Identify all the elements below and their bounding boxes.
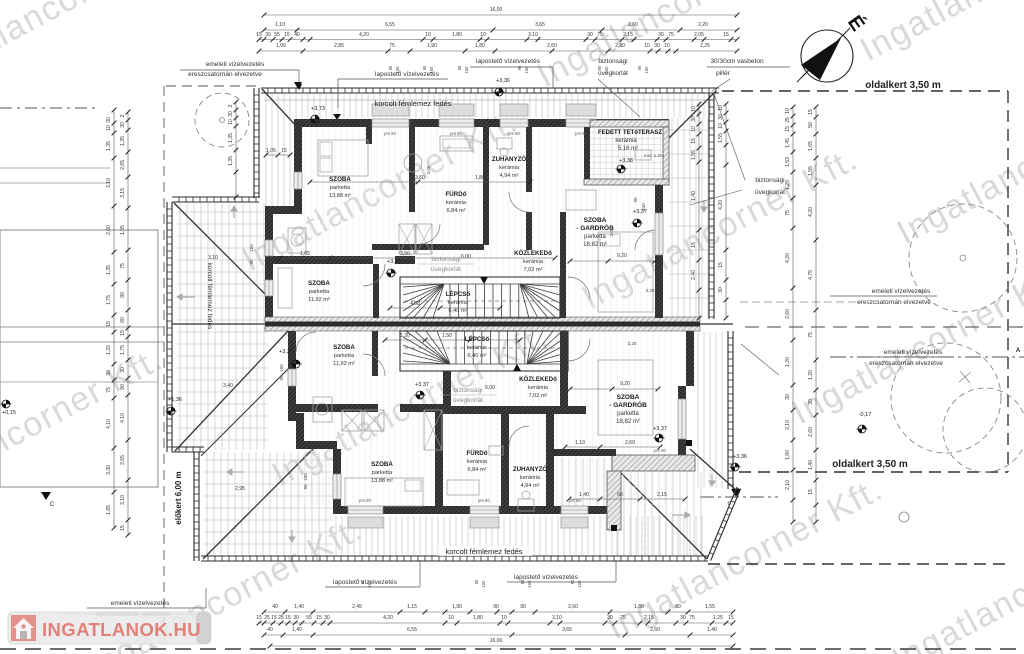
interior dim row lower: [565, 446, 660, 448]
svg-text:30: 30: [120, 122, 126, 128]
svg-text:1,10: 1,10: [275, 22, 285, 28]
svg-text:3,30: 3,30: [106, 465, 112, 475]
dim chain left 1: [113, 110, 115, 528]
sofa lower-left room upper unit: [278, 268, 292, 308]
svg-text:parketta: parketta: [309, 289, 330, 295]
svg-text:1,80: 1,80: [475, 175, 485, 181]
svg-text:parketta: parketta: [617, 411, 639, 417]
svg-text:3,20: 3,20: [646, 288, 655, 293]
window top 4: [566, 119, 596, 127]
svg-text:75: 75: [597, 32, 603, 38]
svg-text:4,20: 4,20: [359, 32, 369, 38]
wall south exterior (lower unit): [333, 506, 612, 514]
roof hatch bottom-left: [207, 452, 326, 556]
svg-text:10: 10: [785, 108, 791, 114]
wall szoba1192 east (lower): [372, 331, 378, 376]
svg-text:2,15: 2,15: [644, 615, 654, 621]
svg-text:ereszcsatornán elvezetve: ereszcsatornán elvezetve: [869, 360, 943, 367]
dim chain bottom 16,00: [270, 645, 733, 647]
interior dim row upper: [310, 181, 530, 183]
hip diagonal E corner: [690, 449, 735, 489]
washing machine lower: [313, 397, 332, 422]
svg-text:90: 90: [597, 65, 602, 70]
terrace floor tiles: [590, 127, 663, 179]
svg-text:150: 150: [279, 364, 284, 372]
svg-text:10: 10: [501, 615, 507, 621]
svg-text:C: C: [50, 502, 55, 508]
svg-text:90: 90: [517, 65, 522, 70]
svg-text:40: 40: [267, 627, 273, 633]
eave west lower: [198, 452, 200, 561]
hip diagonal NW: [262, 89, 298, 128]
svg-text:3,10: 3,10: [120, 495, 126, 505]
neighbour building left: [0, 230, 158, 487]
window west lower unit: [288, 369, 296, 386]
svg-text:1,80: 1,80: [634, 604, 644, 610]
svg-text:emeleti vízelvezetés: emeleti vízelvezetés: [872, 288, 931, 295]
bed lower unit gardrob: [598, 360, 653, 435]
svg-text:10: 10: [480, 32, 486, 38]
svg-text:2,60: 2,60: [568, 604, 578, 610]
svg-text:15: 15: [691, 138, 697, 144]
svg-text:2: 2: [120, 114, 126, 117]
svg-text:1,40: 1,40: [691, 191, 697, 201]
svg-text:3,40: 3,40: [223, 383, 233, 389]
svg-text:1,55: 1,55: [718, 133, 724, 143]
svg-text:90: 90: [637, 65, 642, 70]
bathtub upper: [440, 136, 473, 151]
svg-text:90: 90: [120, 292, 126, 298]
svg-text:1,55: 1,55: [691, 150, 697, 160]
svg-text:240: 240: [641, 203, 646, 211]
svg-text:15: 15: [271, 615, 277, 621]
svg-text:13,88 m²: 13,88 m²: [371, 478, 393, 484]
svg-text:1,00: 1,00: [276, 43, 286, 49]
svg-text:30: 30: [587, 32, 593, 38]
svg-text:150: 150: [481, 580, 486, 588]
svg-text:30: 30: [265, 32, 271, 38]
svg-text:2,15: 2,15: [657, 492, 667, 498]
svg-text:előkert 6,00 m: előkert 6,00 m: [174, 471, 183, 524]
svg-text:15: 15: [728, 615, 734, 621]
svg-text:1,90: 1,90: [427, 43, 437, 49]
svg-text:80: 80: [675, 604, 681, 610]
eave left extension top: [172, 196, 259, 198]
svg-text:11,92 m²: 11,92 m²: [333, 361, 355, 367]
svg-text:oldalkert 3,50 m: oldalkert 3,50 m: [865, 80, 941, 91]
dim chain top row4: [259, 50, 737, 52]
svg-text:6,00: 6,00: [461, 254, 471, 260]
svg-text:kerámia: kerámia: [523, 259, 544, 265]
svg-text:16,00: 16,00: [490, 638, 503, 644]
svg-text:+3,36: +3,36: [496, 78, 510, 84]
svg-text:+3,37: +3,37: [653, 426, 667, 432]
svg-text:3,65: 3,65: [535, 22, 545, 28]
svg-text:üvegkorlát: üvegkorlát: [453, 397, 483, 404]
svg-text:1,20: 1,20: [106, 345, 112, 355]
dim chain right outer 2: [815, 107, 817, 522]
svg-text:2,60: 2,60: [625, 440, 635, 446]
hip diagonal SE: [620, 472, 707, 559]
svg-text:1,40: 1,40: [579, 492, 589, 498]
svg-text:90: 90: [520, 604, 526, 610]
svg-text:2,15: 2,15: [623, 32, 633, 38]
svg-text:2,85: 2,85: [334, 43, 344, 49]
svg-text:+1,36: +1,36: [168, 397, 182, 403]
svg-text:1,20: 1,20: [808, 370, 814, 380]
wall stub bed nook: [366, 127, 372, 144]
svg-text:2,25: 2,25: [700, 43, 710, 49]
svg-text:2,65: 2,65: [120, 160, 126, 170]
svg-text:4,75: 4,75: [808, 270, 814, 280]
svg-text:emeleti vízelvezetés: emeleti vízelvezetés: [206, 61, 265, 68]
svg-text:SZOBA: SZOBA: [617, 394, 640, 401]
svg-text:25: 25: [264, 615, 270, 621]
wall west upper (lower unit): [288, 331, 296, 413]
svg-text:30/30cm vasbeton: 30/30cm vasbeton: [710, 58, 764, 65]
svg-text:2,05: 2,05: [694, 32, 704, 38]
svg-text:korcolt fémlemez fedés: korcolt fémlemez fedés: [206, 263, 213, 331]
svg-text:1,20: 1,20: [400, 333, 410, 339]
gardrob dims: [570, 260, 655, 262]
svg-text:15: 15: [316, 615, 322, 621]
svg-text:A: A: [1016, 348, 1021, 354]
svg-text:1,35: 1,35: [106, 141, 112, 151]
svg-text:18,82 m²: 18,82 m²: [616, 419, 640, 425]
svg-text:55: 55: [274, 32, 280, 38]
svg-text:1,05: 1,05: [300, 251, 310, 257]
partition szoba (lower): [296, 404, 378, 412]
dim chain top 16,00: [264, 14, 737, 16]
svg-text:75: 75: [389, 43, 395, 49]
svg-text:üvegkorlát: üvegkorlát: [755, 189, 785, 196]
svg-text:1,40: 1,40: [292, 627, 302, 633]
section marker C left: [41, 492, 51, 500]
svg-text:150: 150: [303, 473, 308, 481]
svg-text:1,35: 1,35: [228, 133, 234, 143]
svg-text:SZOBA: SZOBA: [308, 280, 330, 287]
window south 2: [470, 506, 499, 514]
wall band (lower unit): [296, 441, 337, 449]
svg-text:6,84 m²: 6,84 m²: [447, 208, 466, 214]
window top 3: [500, 119, 528, 127]
window: [333, 474, 341, 499]
svg-text:90: 90: [360, 579, 365, 584]
site boundary lines: [722, 90, 1008, 92]
svg-text:30: 30: [106, 370, 112, 376]
wardrobe X lower: [342, 410, 362, 431]
dim chain right inner 1: [698, 104, 700, 318]
svg-text:5,16 m²: 5,16 m²: [618, 146, 638, 152]
svg-text:1,05: 1,05: [266, 148, 276, 154]
svg-text:6,55: 6,55: [407, 627, 417, 633]
interior dim row upper3: [390, 307, 500, 309]
svg-text:90: 90: [120, 384, 126, 390]
logo ingatlanok.hu: [8, 612, 211, 644]
svg-text:150: 150: [527, 580, 532, 588]
eave left extension west: [171, 202, 173, 452]
svg-text:75: 75: [808, 332, 814, 338]
svg-text:30: 30: [785, 394, 791, 400]
eave SE chamfer: [707, 487, 737, 559]
eave bottom: [201, 555, 708, 557]
roof hatch right strip lower: [698, 332, 728, 488]
wall east of unit (upper): [655, 185, 663, 260]
svg-text:2,40: 2,40: [691, 270, 697, 280]
sink terrace: [635, 150, 651, 160]
svg-text:SZOBA: SZOBA: [333, 344, 355, 351]
svg-text:3,00: 3,00: [426, 165, 431, 174]
svg-text:ZUHANYZÓ: ZUHANYZÓ: [492, 155, 527, 163]
roof windows above: [372, 104, 409, 116]
roof hatch top strip: [266, 94, 710, 118]
table round upper: [404, 154, 422, 172]
svg-text:15: 15: [808, 109, 814, 115]
svg-text:75: 75: [668, 32, 674, 38]
svg-text:90: 90: [303, 484, 308, 490]
svg-text:4,20: 4,20: [383, 615, 393, 621]
svg-text:1,85: 1,85: [106, 505, 112, 515]
svg-text:INGATLANOK.HU: INGATLANOK.HU: [42, 619, 201, 640]
slope arrows: [177, 294, 195, 300]
svg-text:parketta: parketta: [330, 185, 351, 191]
interior wall zuhanyzo east (lower): [546, 406, 554, 514]
svg-text:2,60: 2,60: [547, 43, 557, 49]
wall west upper room: [294, 127, 302, 214]
svg-text:1,35: 1,35: [106, 265, 112, 275]
bathtub lower: [447, 480, 479, 495]
eave right lower: [732, 331, 734, 489]
roof hatch west strip upper: [266, 118, 290, 206]
svg-text:3,10: 3,10: [552, 615, 562, 621]
interior wall furdo west (lower): [435, 406, 443, 514]
washing machine upper: [288, 228, 306, 253]
svg-text:pm 90: pm 90: [575, 131, 587, 136]
svg-text:3,20: 3,20: [628, 341, 637, 346]
svg-text:kerámia: kerámia: [467, 459, 488, 465]
svg-text:15: 15: [723, 32, 729, 38]
svg-text:6,55: 6,55: [385, 22, 395, 28]
interior wall gardrob west: [560, 212, 566, 318]
interior wall szoba/furdo: [409, 127, 415, 212]
svg-text:+3,36: +3,36: [279, 349, 293, 355]
svg-text:+3,38: +3,38: [619, 158, 633, 164]
svg-text:75: 75: [120, 263, 126, 269]
dim chain top row2: [264, 29, 737, 31]
roof windows below: [348, 517, 383, 528]
wall bath block north (lower): [435, 406, 586, 414]
section marker C right: [731, 489, 741, 497]
svg-text:ereszcsatornán elvezetve: ereszcsatornán elvezetve: [188, 71, 262, 78]
wall szoba1192 east: [373, 264, 379, 318]
svg-text:7,02 m²: 7,02 m²: [524, 267, 543, 273]
stair lower unit: [400, 331, 568, 371]
svg-text:SZOBA: SZOBA: [584, 217, 607, 224]
svg-text:30: 30: [106, 117, 112, 123]
svg-text:15: 15: [256, 615, 262, 621]
window east upper: [655, 213, 663, 255]
svg-text:10: 10: [691, 106, 697, 112]
svg-text:+3,37: +3,37: [415, 382, 429, 388]
dim chain top row3: [259, 39, 737, 41]
eave top: [261, 87, 719, 89]
svg-text:4,94 m²: 4,94 m²: [500, 173, 519, 179]
dim chain bottom row1: [264, 611, 733, 613]
svg-text:16,00: 16,00: [490, 7, 503, 13]
svg-text:parketta: parketta: [334, 353, 355, 359]
svg-text:kerámia: kerámia: [615, 138, 637, 144]
svg-text:1,65: 1,65: [808, 141, 814, 151]
svg-text:90: 90: [493, 604, 499, 610]
marker top eave: [294, 82, 302, 89]
svg-text:30: 30: [658, 32, 664, 38]
svg-text:10: 10: [425, 32, 431, 38]
svg-text:kerámia: kerámia: [528, 385, 549, 391]
svg-text:90: 90: [279, 375, 284, 381]
svg-text:25: 25: [278, 615, 284, 621]
svg-text:60: 60: [617, 492, 623, 498]
svg-text:2,65: 2,65: [120, 455, 126, 465]
svg-text:18,82 m²: 18,82 m²: [583, 242, 607, 248]
hip diagonal SW: [203, 449, 313, 559]
svg-text:7,02 m²: 7,02 m²: [529, 393, 548, 399]
svg-text:10: 10: [448, 615, 454, 621]
svg-text:1,20: 1,20: [785, 357, 791, 367]
svg-text:3,10: 3,10: [208, 255, 218, 261]
interior dim upper-left window: [266, 154, 290, 156]
svg-text:KÖZLEKEDő: KÖZLEKEDő: [514, 250, 552, 257]
svg-text:3,10: 3,10: [528, 32, 538, 38]
svg-text:2,95: 2,95: [235, 486, 245, 492]
svg-text:min. 1,5%: min. 1,5%: [644, 153, 664, 158]
interior dim row lower2: [569, 498, 685, 500]
svg-text:1,80: 1,80: [475, 43, 485, 49]
svg-text:75: 75: [620, 615, 626, 621]
wall top exterior (upper unit): [294, 119, 669, 127]
svg-text:11,92 m²: 11,92 m²: [308, 297, 330, 303]
svg-text:1,55: 1,55: [808, 166, 814, 176]
svg-text:FEDETT TETőTERASZ: FEDETT TETőTERASZ: [598, 130, 662, 136]
interior wall furdo/zuhanyzo: [483, 127, 489, 245]
window west 3: [265, 280, 273, 296]
svg-text:30: 30: [324, 615, 330, 621]
svg-text:10: 10: [106, 125, 112, 131]
dim chain right inner 2: [725, 104, 727, 318]
svg-text:15: 15: [120, 525, 126, 531]
floor texture lower unit: [299, 332, 671, 505]
svg-text:+3,36: +3,36: [733, 454, 747, 460]
svg-text:15: 15: [256, 32, 262, 38]
svg-text:1,80: 1,80: [473, 615, 483, 621]
svg-text:2,60: 2,60: [650, 627, 660, 633]
svg-text:15: 15: [718, 262, 724, 268]
svg-text:10: 10: [228, 119, 234, 125]
svg-text:korcolt fémlemez fedés: korcolt fémlemez fedés: [374, 99, 451, 108]
svg-text:30: 30: [120, 367, 126, 373]
svg-text:üvegkorlát: üvegkorlát: [431, 266, 461, 273]
svg-text:90: 90: [520, 579, 525, 584]
dim chain bottom row3: [264, 634, 733, 636]
svg-text:pm 90: pm 90: [384, 131, 396, 136]
svg-text:parketta: parketta: [584, 234, 606, 240]
svg-text:3,60: 3,60: [415, 175, 425, 181]
svg-text:1,75: 1,75: [120, 345, 126, 355]
svg-text:kerámia: kerámia: [520, 475, 541, 481]
svg-text:4,20: 4,20: [718, 200, 724, 210]
svg-text:15: 15: [808, 489, 814, 495]
svg-text:1,35: 1,35: [120, 136, 126, 146]
wall gardrob west (lower): [560, 331, 568, 406]
svg-text:pm 90: pm 90: [359, 498, 371, 503]
window east lower: [678, 399, 686, 439]
svg-text:pm 90: pm 90: [478, 498, 490, 503]
window south 1: [348, 506, 383, 514]
svg-text:FÜRDő: FÜRDő: [467, 450, 488, 457]
wall jog (lower unit): [288, 413, 304, 421]
svg-text:15: 15: [281, 148, 287, 154]
svg-text:+0,15: +0,15: [2, 410, 16, 416]
svg-text:10: 10: [691, 126, 697, 132]
svg-text:30: 30: [654, 43, 660, 49]
svg-text:90: 90: [474, 579, 479, 584]
svg-text:2,45: 2,45: [352, 604, 362, 610]
svg-text:emeleti vízelvezetés: emeleti vízelvezetés: [884, 349, 943, 356]
window top 2: [439, 119, 474, 127]
svg-text:biztonsági: biztonsági: [598, 58, 627, 65]
svg-text:6,40 m²: 6,40 m²: [468, 353, 487, 359]
hip diagonal NE: [666, 91, 716, 141]
svg-text:korcolt fémlemez fedés: korcolt fémlemez fedés: [445, 547, 522, 556]
svg-text:kerámia: kerámia: [467, 345, 488, 351]
svg-text:1,20: 1,20: [785, 180, 791, 190]
roof hatch bottom strip: [336, 516, 702, 556]
svg-text:4,20: 4,20: [785, 253, 791, 263]
svg-text:150: 150: [429, 66, 434, 74]
dim chain left 2: [127, 112, 129, 535]
svg-text:10: 10: [718, 105, 724, 111]
north arrow: [797, 11, 870, 82]
corridor wall (lower): [443, 371, 451, 406]
svg-text:15: 15: [285, 615, 291, 621]
svg-text:1,45: 1,45: [785, 138, 791, 148]
wall furdo south: [372, 244, 484, 250]
hip diagonal west upper: [174, 203, 265, 294]
bed lower szoba: [345, 478, 423, 506]
svg-text:1,10: 1,10: [575, 440, 585, 446]
stair upper unit: [400, 277, 560, 318]
toilet upper: [497, 138, 512, 149]
party wall: [265, 317, 700, 322]
svg-text:4,94 m²: 4,94 m²: [521, 483, 540, 489]
svg-text:ereszcsatornán elvezetve: ereszcsatornán elvezetve: [857, 299, 931, 306]
svg-text:ZUHANYZÓ: ZUHANYZÓ: [513, 465, 548, 473]
svg-text:1,75: 1,75: [106, 295, 112, 305]
dim chain right outer 1: [792, 107, 794, 522]
svg-text:2,10: 2,10: [785, 480, 791, 490]
svg-text:150: 150: [464, 66, 469, 74]
svg-text:15: 15: [120, 330, 126, 336]
interior dim row lower3: [385, 339, 520, 341]
svg-text:150: 150: [367, 580, 372, 588]
svg-text:1,80: 1,80: [785, 450, 791, 460]
wall west lower: [265, 214, 273, 318]
svg-text:15: 15: [691, 242, 697, 248]
svg-text:1,35: 1,35: [228, 156, 234, 166]
svg-text:6,84 m²: 6,84 m²: [468, 467, 487, 473]
svg-text:90: 90: [422, 65, 427, 70]
window west 1: [294, 172, 302, 189]
svg-text:30: 30: [228, 111, 234, 117]
